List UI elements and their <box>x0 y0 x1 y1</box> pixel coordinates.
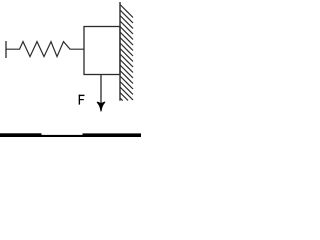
spring K1 (zigzag with lead wires) <box>6 42 84 57</box>
bottom band segment B (thin) <box>42 135 83 137</box>
block (mass) <box>84 27 120 75</box>
left anchor bar <box>5 41 7 58</box>
bottom band segment A <box>0 133 42 137</box>
wall hatching <box>120 5 133 101</box>
force arrow shaft <box>100 75 102 105</box>
wall line <box>119 2 121 101</box>
force arrowhead <box>97 102 104 111</box>
bottom band segment C <box>83 133 142 137</box>
label F <box>79 95 85 105</box>
